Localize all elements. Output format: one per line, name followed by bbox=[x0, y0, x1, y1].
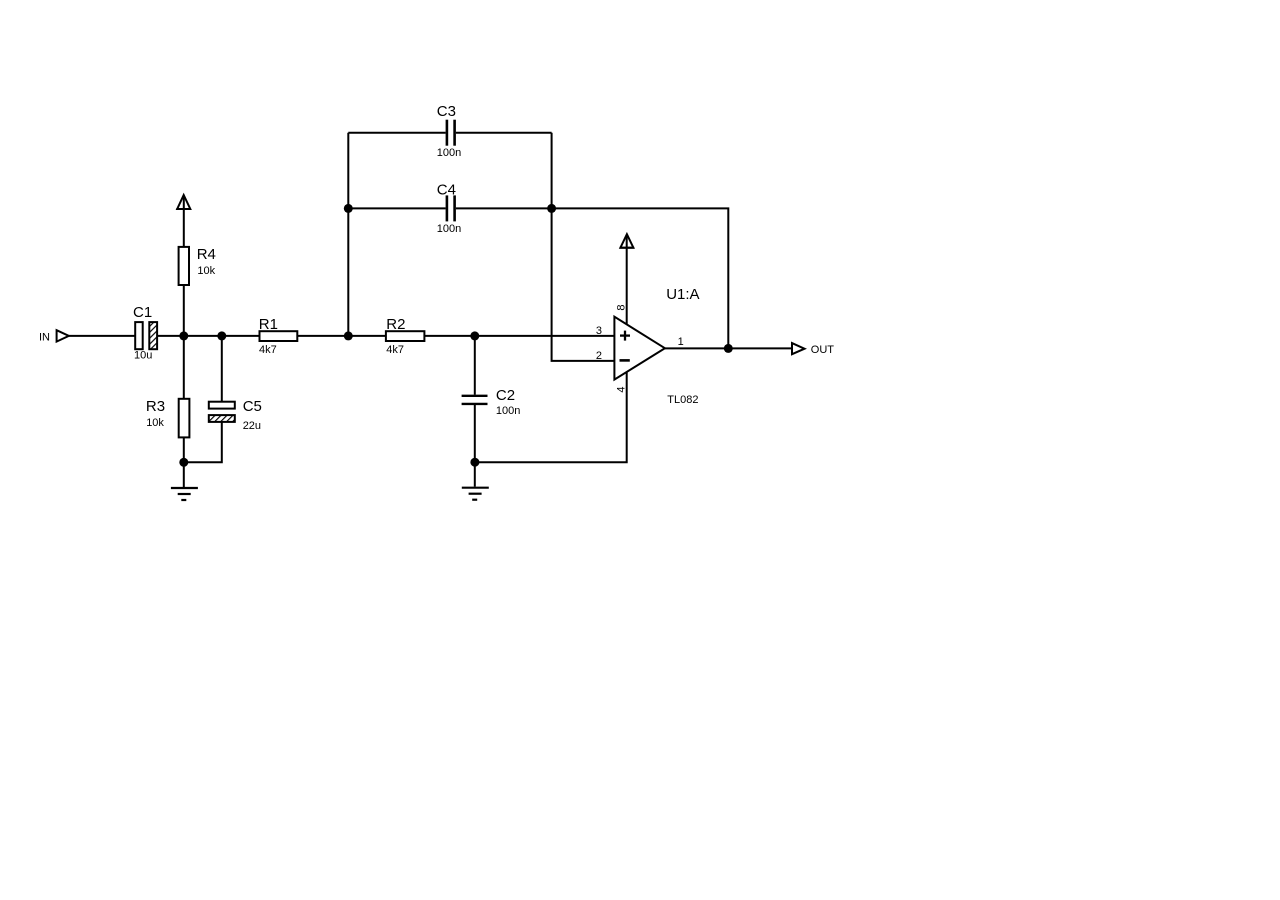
svg-text:100n: 100n bbox=[496, 405, 520, 417]
svg-text:IN: IN bbox=[39, 332, 50, 344]
svg-text:C5: C5 bbox=[243, 398, 262, 415]
svg-text:4k7: 4k7 bbox=[386, 344, 404, 356]
svg-text:C3: C3 bbox=[437, 103, 456, 120]
svg-text:R3: R3 bbox=[146, 398, 165, 415]
svg-text:C1: C1 bbox=[133, 304, 152, 321]
svg-text:22u: 22u bbox=[243, 420, 261, 432]
svg-text:U1:A: U1:A bbox=[666, 286, 699, 303]
svg-text:R2: R2 bbox=[386, 316, 405, 333]
svg-text:4: 4 bbox=[616, 386, 628, 392]
svg-text:R1: R1 bbox=[259, 316, 278, 333]
svg-text:10k: 10k bbox=[146, 417, 164, 429]
svg-text:R4: R4 bbox=[197, 246, 216, 263]
svg-text:4k7: 4k7 bbox=[259, 344, 277, 356]
svg-text:10k: 10k bbox=[197, 265, 215, 277]
svg-text:1: 1 bbox=[678, 336, 684, 348]
svg-text:8: 8 bbox=[616, 305, 628, 311]
svg-text:100n: 100n bbox=[437, 147, 461, 159]
svg-text:10u: 10u bbox=[134, 350, 152, 362]
svg-text:100n: 100n bbox=[437, 223, 461, 235]
svg-text:3: 3 bbox=[596, 325, 602, 337]
svg-text:TL082: TL082 bbox=[667, 394, 698, 406]
svg-text:OUT: OUT bbox=[811, 344, 835, 356]
svg-text:2: 2 bbox=[596, 350, 602, 362]
svg-text:C2: C2 bbox=[496, 387, 515, 404]
svg-text:C4: C4 bbox=[437, 182, 456, 199]
